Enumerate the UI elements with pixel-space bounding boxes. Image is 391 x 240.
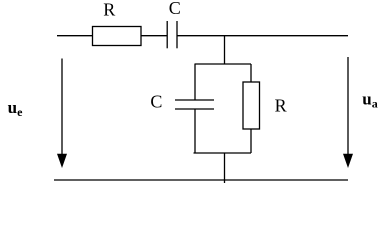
svg-text:C: C [169,0,181,18]
svg-text:R: R [275,96,287,116]
svg-text:ue: ue [8,98,23,119]
svg-text:R: R [103,0,115,20]
svg-text:ua: ua [362,90,377,111]
svg-text:C: C [150,91,162,111]
